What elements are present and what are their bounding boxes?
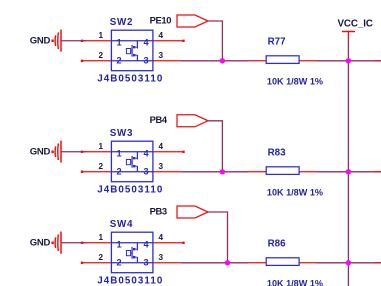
svg-text:2: 2: [117, 257, 122, 267]
ground GND (section 1): [51, 30, 61, 52]
svg-text:3: 3: [144, 257, 149, 267]
svg-text:4: 4: [144, 37, 150, 47]
svg-text:2: 2: [99, 51, 104, 60]
svg-text:3: 3: [144, 55, 149, 65]
svg-text:SW3: SW3: [110, 128, 133, 139]
svg-text:R77: R77: [268, 37, 287, 48]
pin 2 stub (section 3): [81, 262, 112, 264]
wire stub right edge (section 3): [375, 262, 381, 264]
wire resistor to rail to right edge (section 3): [317, 262, 381, 264]
wire GND to pin 1 (section 2): [61, 151, 86, 153]
wire port PB4 to junction: [208, 121, 222, 172]
switch SW4 body: [111, 232, 152, 273]
resistor R77: [247, 56, 317, 64]
svg-text:1: 1: [99, 233, 104, 242]
svg-text:PB4: PB4: [150, 114, 168, 125]
svg-text:3: 3: [159, 162, 164, 171]
port symbol PE10: [177, 15, 208, 27]
pin 4 stub (section 1): [153, 40, 185, 42]
pin 2 stub (section 1): [81, 60, 112, 62]
wire stub right edge (section 1): [375, 60, 381, 62]
svg-text:4: 4: [159, 233, 164, 242]
switch SW2 body: [111, 30, 152, 70]
svg-text:PE10: PE10: [150, 14, 172, 25]
svg-text:VCC_IC: VCC_IC: [338, 18, 373, 29]
svg-text:1: 1: [99, 142, 104, 151]
svg-text:1: 1: [117, 239, 122, 249]
svg-text:10K 1/8W 1%: 10K 1/8W 1%: [267, 188, 323, 198]
junction rail (section 1): [346, 58, 351, 63]
svg-text:10K 1/8W 1%: 10K 1/8W 1%: [267, 279, 323, 286]
junction port drop (section 3): [225, 260, 230, 265]
svg-text:1: 1: [117, 148, 122, 158]
svg-text:3: 3: [159, 51, 164, 60]
svg-text:SW4: SW4: [110, 219, 133, 230]
svg-text:GND: GND: [30, 36, 51, 47]
svg-text:1: 1: [117, 37, 122, 47]
svg-text:3: 3: [144, 166, 149, 176]
wire pin 3 to resistor (section 1): [181, 60, 248, 62]
svg-text:2: 2: [117, 166, 122, 176]
junction rail (section 2): [346, 169, 351, 174]
pin 3 stub (section 3): [153, 262, 181, 264]
wire pin 3 to resistor (section 2): [181, 171, 248, 173]
pin 1 stub (section 3): [81, 242, 112, 244]
svg-text:R83: R83: [268, 148, 287, 159]
junction rail (section 3): [346, 260, 351, 265]
svg-text:3: 3: [159, 253, 164, 262]
ground GND (section 3): [51, 232, 61, 254]
svg-text:GND: GND: [30, 147, 51, 158]
junction port drop (section 2): [220, 169, 225, 174]
svg-text:10K 1/8W 1%: 10K 1/8W 1%: [267, 77, 323, 87]
pin 1 stub (section 2): [81, 151, 112, 153]
power symbol VCC_IC: [342, 32, 355, 41]
svg-text:J4B0503110: J4B0503110: [97, 185, 163, 196]
svg-text:1: 1: [99, 31, 104, 40]
wire pin 3 to resistor (section 3): [181, 262, 248, 264]
svg-text:J4B0503110: J4B0503110: [97, 276, 163, 286]
wire stub right edge (section 2): [375, 171, 381, 173]
svg-text:PB3: PB3: [150, 205, 167, 216]
svg-text:4: 4: [159, 31, 164, 40]
svg-text:2: 2: [99, 162, 104, 171]
pin 2 stub (section 2): [81, 171, 112, 173]
svg-text:4: 4: [159, 142, 164, 151]
wire resistor to rail to right edge (section 2): [317, 171, 381, 173]
port symbol PB4: [177, 115, 208, 127]
svg-text:4: 4: [144, 239, 150, 249]
pin 3 stub (section 1): [153, 60, 181, 62]
wire port PB3 to junction: [208, 212, 228, 263]
pin 4 stub (section 2): [153, 151, 185, 153]
port symbol PB3: [177, 206, 208, 218]
pin 3 stub (section 2): [153, 171, 181, 173]
svg-text:2: 2: [99, 253, 104, 262]
wire resistor to rail to right edge (section 1): [317, 60, 381, 62]
svg-text:4: 4: [144, 148, 150, 158]
wire GND to pin 1 (section 3): [61, 242, 86, 244]
pin 4 stub (section 3): [153, 242, 185, 244]
svg-text:R86: R86: [268, 239, 287, 250]
wire GND to pin 1 (section 1): [61, 40, 86, 42]
junction port drop (section 1): [220, 58, 225, 63]
svg-text:2: 2: [117, 55, 122, 65]
ground GND (section 2): [51, 141, 61, 163]
svg-text:J4B0503110: J4B0503110: [97, 74, 163, 85]
svg-text:GND: GND: [30, 238, 51, 249]
wire port PE10 to junction: [208, 21, 222, 61]
svg-text:SW2: SW2: [110, 17, 133, 28]
resistor R86: [247, 258, 317, 266]
resistor R83: [247, 167, 317, 175]
pin 1 stub (section 1): [81, 40, 112, 42]
switch SW3 body: [111, 141, 152, 182]
wire VCC vertical rail: [347, 40, 349, 286]
